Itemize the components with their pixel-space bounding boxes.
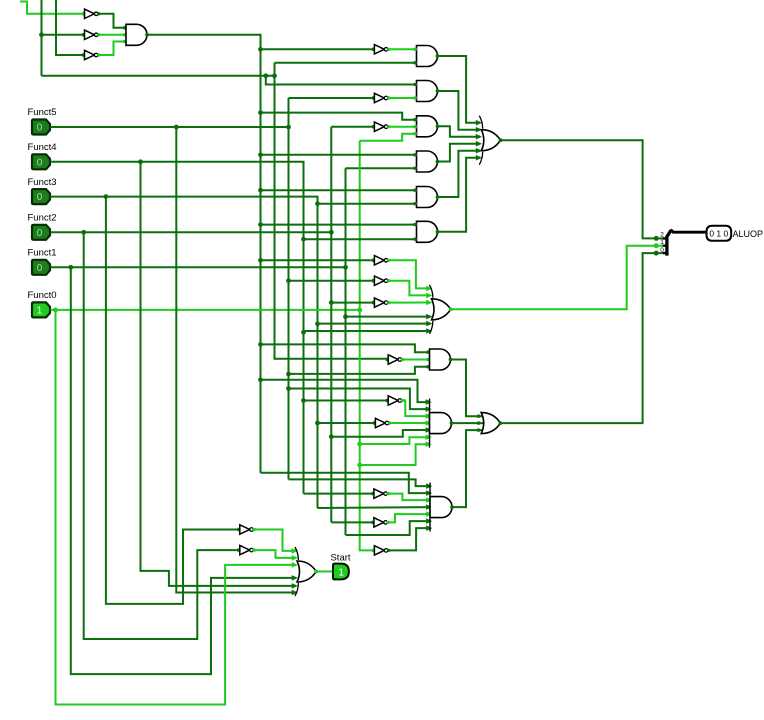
wire G1 out to OR G9 input 1 bbox=[438, 56, 481, 123]
inverter U9 bbox=[386, 355, 404, 364]
node c2 tap G7 bbox=[286, 372, 291, 377]
svg-text:Funct3: Funct3 bbox=[28, 177, 57, 188]
inverter U2 (top row) bbox=[82, 9, 100, 18]
inverter U14 (NOT Funct0) bbox=[372, 546, 390, 555]
node Funct4 drop bbox=[138, 159, 143, 164]
wire to AND G2 input 1 bbox=[266, 76, 417, 85]
wire c6 to OR G11 input 4 bbox=[346, 316, 431, 318]
wire c4 to inverter U13 bbox=[318, 422, 376, 424]
node c0 tap G3 bbox=[258, 110, 263, 115]
output pin Start bbox=[333, 564, 349, 580]
input pin Funct2 bbox=[32, 225, 50, 240]
wire G0 output bus c0 bbox=[147, 35, 261, 473]
wire G14 out to Start pin bbox=[316, 571, 333, 573]
and-gate G12 (7-input) bbox=[430, 483, 454, 532]
wire c7 to AND G8 input 6 bbox=[360, 437, 430, 444]
wire column c6 (Funct1 net) bbox=[345, 168, 347, 535]
node c0 tap G7 bbox=[258, 342, 263, 347]
wire Funct4 row then down c3 bbox=[51, 162, 304, 494]
wire net-in2 long horizontal y76 bbox=[42, 75, 275, 77]
wire G7 out to OR G10 input 1 bbox=[451, 360, 483, 417]
wire U17 out to AND G12 input 5 bbox=[388, 514, 430, 522]
wire c5 to AND G8 input 5 bbox=[331, 430, 429, 437]
inverter U5 bbox=[372, 45, 390, 54]
wire c3 to inverter U11 bbox=[304, 400, 389, 402]
wire c4 to OR G11 input 5 bbox=[318, 323, 431, 325]
wire c3 to AND G6 input 2 bbox=[304, 238, 417, 240]
wire Funct5 row bbox=[51, 126, 289, 128]
wire Funct1 row bbox=[51, 266, 346, 268]
node c3 tap U11 bbox=[301, 398, 306, 403]
svg-text:0: 0 bbox=[37, 192, 43, 203]
svg-text:0: 0 bbox=[37, 228, 43, 239]
wire U5 out to AND G1 input 1 bbox=[389, 48, 417, 50]
wire c5 to inverter U7b bbox=[331, 302, 374, 304]
and-gate G2 bbox=[417, 81, 440, 102]
wire Funct3 row then down c4 bbox=[51, 197, 318, 508]
or-gate G10 bbox=[481, 413, 502, 434]
wire G10 out to splitter bit 0 bbox=[500, 253, 655, 423]
node Funct5 joins c2 bbox=[286, 125, 291, 130]
node c5 tap G8 bbox=[329, 434, 334, 439]
svg-text:Funct0: Funct0 bbox=[28, 290, 57, 301]
node c6 tap OR G11 bbox=[343, 314, 348, 319]
node c2 tap G8 bbox=[286, 386, 291, 391]
or-gate G11 bbox=[430, 285, 453, 334]
wire c2 to AND G12 input 1 bbox=[289, 479, 431, 486]
wire Funct0 row bbox=[51, 309, 360, 311]
input pin Funct3 bbox=[32, 189, 50, 204]
node Funct5 drop bbox=[174, 125, 179, 130]
svg-text:Funct1: Funct1 bbox=[28, 248, 57, 259]
inverter U7b (NOT Funct2) bbox=[372, 298, 390, 307]
wire G12 out to OR G10 input 3 bbox=[452, 430, 483, 507]
wire Funct3 U-loop up to inverter U15 bbox=[106, 197, 240, 604]
wire U7b out to OR G11 input 3 bbox=[389, 302, 431, 304]
inverter U4 (bottom row) bbox=[82, 50, 100, 59]
node c7 tap G8 p6 bbox=[357, 442, 362, 447]
wire c3 to inverter U12 bbox=[304, 493, 374, 495]
node Funct2 joins c5 bbox=[329, 230, 334, 235]
wire U9 out to AND G7 input 2 bbox=[402, 359, 429, 361]
wire Funct1 U-loop to OR G14 input 4 bbox=[71, 267, 296, 674]
wire G11 out to splitter bit 1 bbox=[451, 246, 656, 310]
node y76 joins column c1 bbox=[272, 73, 277, 78]
wire c3 to OR G11 input 6 bbox=[304, 330, 431, 332]
wire G2 out to OR G9 input 2 bbox=[438, 91, 481, 130]
wire c1 to AND G1 input 2 bbox=[275, 62, 417, 64]
inverter U16 (NOT Funct2) bbox=[237, 545, 255, 554]
wire c0 to AND G5 input 1 bbox=[261, 189, 417, 191]
wire c0 to AND G4 input 1 bbox=[261, 154, 417, 156]
node c0 tap G6 bbox=[258, 222, 263, 227]
wire U14 out to AND G12 input 7 bbox=[389, 528, 430, 550]
wire net-in1 to inverter U2 bbox=[20, 2, 85, 14]
and-gate G8 (7-input) bbox=[430, 399, 454, 448]
wire U6 out to AND G2 input 2 bbox=[389, 97, 417, 99]
wire c2 to inverter U10 bbox=[289, 280, 375, 282]
wire G5 out to OR G9 input 5 bbox=[438, 151, 481, 197]
svg-text:2: 2 bbox=[660, 232, 664, 239]
node Funct1 drop bbox=[68, 265, 73, 270]
node c7 tap G8 p7 bbox=[357, 463, 362, 468]
svg-text:0: 0 bbox=[660, 247, 664, 254]
inverter U11 (NOT Funct4) bbox=[386, 396, 404, 405]
and-gate G4 bbox=[417, 151, 440, 172]
inverter U6 (NOT Funct5) bbox=[372, 93, 390, 102]
wire c0 to AND G3 input 1 bbox=[261, 113, 417, 120]
svg-text:ALUOP: ALUOP bbox=[733, 229, 764, 239]
wire c5 to inverter U7 bbox=[331, 126, 374, 128]
wire c0 to inverter U5 bbox=[261, 48, 375, 50]
node c3 tap OR G11 bbox=[301, 330, 306, 335]
input pin Funct4 bbox=[32, 154, 50, 169]
wire U8 out to OR G11 input 1 bbox=[389, 260, 431, 288]
wire Funct5 column down to OR G14 input 6 bbox=[176, 127, 296, 593]
inverter U7 (NOT Funct2) bbox=[372, 122, 390, 131]
and-gate G3 bbox=[417, 116, 440, 137]
wire U10 out to OR G11 input 2 bbox=[389, 281, 431, 296]
wire Funct2 row bbox=[51, 231, 332, 233]
wire c2 to inverter U6 bbox=[289, 97, 375, 99]
svg-text:Funct5: Funct5 bbox=[28, 107, 57, 118]
input pin Funct0 bbox=[32, 302, 50, 317]
node Funct3 drop bbox=[104, 194, 109, 199]
wire Funct2 U-loop up to inverter U16 bbox=[84, 232, 240, 639]
wire column c7 (Funct0 net) to inverter U14 bbox=[360, 141, 375, 551]
wire c5 to inverter U17 bbox=[331, 521, 374, 523]
inverter U13 (NOT Funct3) bbox=[373, 418, 391, 427]
and-gate G6 bbox=[417, 221, 440, 242]
inverter U10 (NOT Funct5) bbox=[372, 276, 390, 285]
and-gate G0 (top-left) bbox=[126, 24, 149, 45]
wire Funct0 U-loop to OR G14 input 3 bbox=[56, 310, 296, 705]
wire splitter to ALUOP (3-bit black) bbox=[671, 230, 707, 233]
and-gate G7 bbox=[430, 349, 453, 370]
node c0 tap G5 bbox=[258, 188, 263, 193]
wire c0 to AND G12 input 2 bbox=[261, 473, 431, 493]
wire G8 out to OR G10 input 2 bbox=[452, 422, 484, 424]
wire c0 to AND G6 input 1 bbox=[261, 224, 417, 226]
node c4 tap OR G11 bbox=[315, 321, 320, 326]
inverter U3 (middle row) bbox=[82, 30, 100, 39]
wire U16 out to OR G14 input 2 bbox=[254, 550, 296, 558]
node Funct0 joins c7 bbox=[357, 308, 362, 313]
node c0 tap U8 bbox=[258, 258, 263, 263]
and-gate G5 bbox=[417, 187, 440, 208]
wire U11 out to AND G8 input 3 bbox=[402, 401, 429, 417]
input pin Funct5 bbox=[32, 120, 50, 135]
inverter U12 (NOT Funct4) bbox=[372, 489, 390, 498]
svg-text:0: 0 bbox=[37, 263, 43, 274]
wire U3 out to AND G0 input 2 bbox=[99, 34, 126, 36]
inverter U17 (NOT Funct2) bbox=[372, 518, 390, 527]
wire U15 out to OR G14 input 1 bbox=[254, 530, 296, 551]
wire U12 out to AND G12 input 3 bbox=[388, 494, 430, 501]
node c2 tap U10 bbox=[286, 278, 291, 283]
svg-text:0: 0 bbox=[37, 157, 43, 168]
node c0 tap U5 bbox=[258, 47, 263, 52]
wire c0 to inverter U8 bbox=[261, 259, 375, 261]
node Funct0 drop bbox=[53, 308, 58, 313]
wire net-in3 to inverter U4 bbox=[56, 0, 85, 55]
wire column c5 (Funct2 net) bbox=[330, 127, 332, 523]
node Funct1 joins c6 bbox=[343, 265, 348, 270]
node c3 tap G6 bbox=[301, 237, 306, 242]
wire column c2 (Funct5 net) bbox=[288, 98, 290, 479]
wire U13 out to AND G8 input 4 bbox=[390, 422, 430, 424]
wire G4 out to OR G9 input 4 bbox=[438, 144, 481, 162]
wire U7 out to AND G3 input 2 bbox=[389, 126, 417, 128]
wire c0 to AND G8 input 1 bbox=[261, 380, 430, 402]
splitter (3-bit combiner) bbox=[654, 230, 672, 256]
wire c2 to AND G7 input 3 bbox=[289, 367, 430, 374]
node net-in2 tap bbox=[39, 32, 44, 37]
wire G9 out to splitter bit 2 bbox=[501, 140, 656, 238]
node c5 tap U7b bbox=[329, 300, 334, 305]
wire column c1 to inverter U9 bbox=[275, 63, 389, 359]
wire c0 to AND G7 input 1 bbox=[261, 344, 430, 352]
wire c6 to AND G12 input 6 bbox=[346, 521, 431, 535]
and-gate G1 bbox=[417, 46, 440, 67]
svg-text:0: 0 bbox=[37, 123, 43, 134]
wire c6 to AND G4 input 2 bbox=[346, 167, 417, 169]
wire U2 out to AND G0 input 1 bbox=[99, 14, 126, 28]
wire G6 out to OR G9 input 6 bbox=[438, 158, 481, 232]
wire to inverter U3 bbox=[42, 34, 85, 36]
or-gate G14 (Start OR) bbox=[295, 547, 318, 596]
svg-text:1: 1 bbox=[660, 239, 664, 246]
node Funct2 drop bbox=[81, 230, 86, 235]
svg-text:Funct4: Funct4 bbox=[28, 142, 57, 153]
node c4 tap U13 bbox=[315, 421, 320, 426]
wire G3 out to OR G9 input 3 bbox=[438, 126, 481, 136]
wire net-in2 vertical x41 bbox=[41, 0, 43, 76]
inverter U8 (NOT G0out) bbox=[372, 256, 390, 265]
output pin ALUOP bbox=[707, 226, 732, 241]
wire c7 to AND G3 input 3 bbox=[360, 134, 417, 141]
svg-text:1: 1 bbox=[37, 306, 43, 317]
inverter U15 (NOT Funct3) bbox=[237, 525, 255, 534]
wire c4 to AND G12 input 4 bbox=[318, 506, 431, 509]
wire U4 out to AND G0 input 3 bbox=[99, 42, 126, 56]
wire c7 to AND G8 input 7 bbox=[360, 444, 430, 465]
svg-text:0 1 0: 0 1 0 bbox=[709, 229, 728, 239]
node c0 tap G4 bbox=[258, 152, 263, 157]
svg-text:Start: Start bbox=[330, 553, 350, 564]
node y76 tap for G2 bbox=[263, 73, 268, 78]
input pin Funct1 bbox=[32, 260, 50, 275]
node Funct3 tap AND G5 bbox=[315, 201, 320, 206]
or-gate G9 bbox=[479, 116, 502, 165]
wire Funct4 U-loop to OR G14 input 5 bbox=[141, 162, 296, 586]
wire c4 jog to AND G5 input 2 bbox=[318, 197, 417, 204]
svg-text:1: 1 bbox=[338, 567, 344, 579]
svg-text:Funct2: Funct2 bbox=[28, 213, 57, 224]
wire c2 to AND G8 input 2 bbox=[289, 389, 430, 410]
node c0 tap G8 bbox=[258, 377, 263, 382]
